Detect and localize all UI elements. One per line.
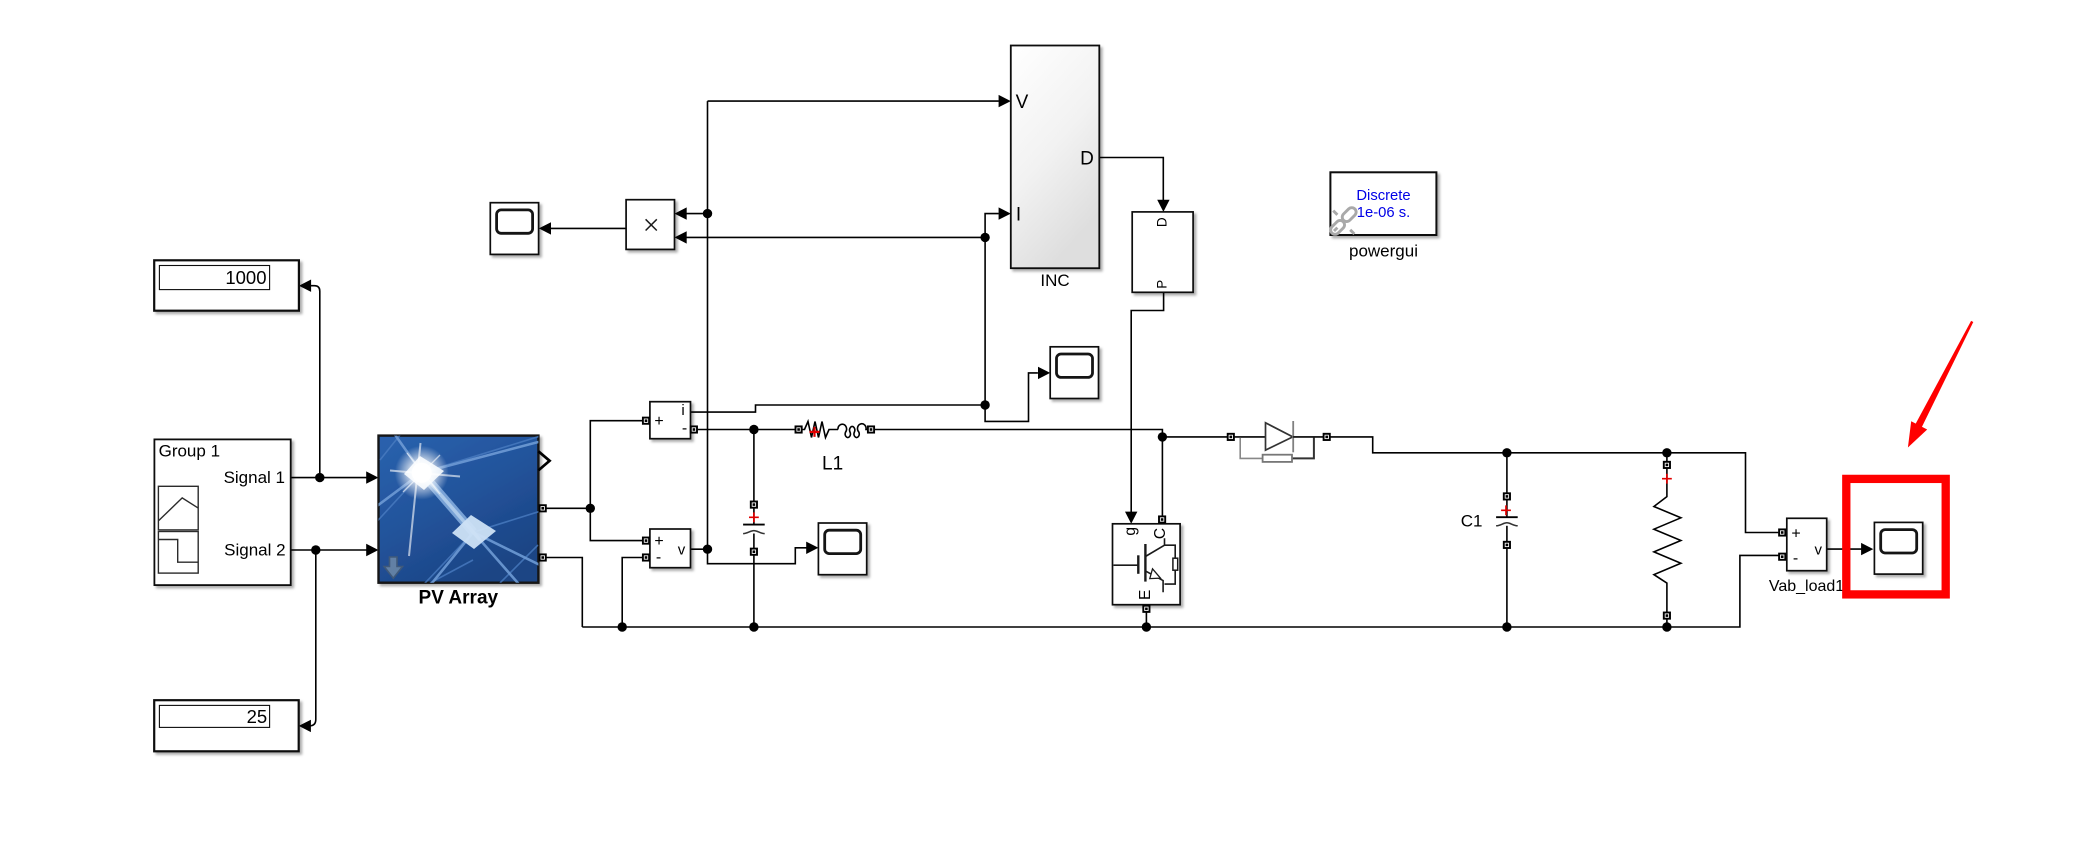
svg-text:-: - — [682, 420, 687, 437]
svg-text:INC: INC — [1040, 271, 1069, 290]
svg-text:C1: C1 — [1461, 512, 1483, 531]
svg-text:D: D — [1080, 148, 1094, 169]
svg-text:v: v — [1815, 542, 1823, 559]
svg-text:Group 1: Group 1 — [159, 441, 220, 460]
svg-text:+: + — [654, 413, 663, 430]
svg-text:Signal 1: Signal 1 — [224, 468, 285, 487]
svg-text:+: + — [1791, 525, 1800, 542]
svg-text:i: i — [681, 402, 684, 419]
svg-text:powergui: powergui — [1349, 242, 1418, 261]
svg-text:-: - — [1793, 550, 1798, 567]
svg-text:E: E — [1137, 590, 1154, 600]
svg-text:+: + — [654, 533, 663, 550]
svg-text:D: D — [1154, 217, 1169, 227]
svg-text:Vab_load1: Vab_load1 — [1769, 578, 1844, 595]
svg-text:P: P — [1154, 280, 1169, 289]
svg-text:g: g — [1122, 527, 1139, 536]
svg-text:1e-06 s.: 1e-06 s. — [1357, 205, 1410, 221]
svg-text:-: - — [656, 549, 661, 566]
svg-text:Discrete: Discrete — [1356, 188, 1410, 204]
svg-text:L1: L1 — [822, 454, 843, 475]
svg-text:1000: 1000 — [225, 267, 266, 288]
svg-text:V: V — [1016, 92, 1029, 113]
svg-text:25: 25 — [247, 706, 268, 727]
svg-text:C: C — [1152, 528, 1169, 539]
svg-text:PV Array: PV Array — [419, 588, 499, 609]
svg-text:Signal 2: Signal 2 — [224, 540, 285, 559]
svg-text:I: I — [1016, 204, 1021, 225]
svg-text:v: v — [678, 541, 686, 558]
